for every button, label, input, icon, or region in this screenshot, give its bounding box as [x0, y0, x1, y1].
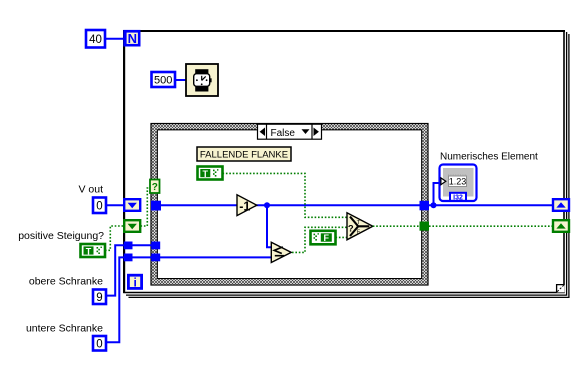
- boolean constant T (positive Steigung?): [81, 244, 106, 257]
- svg-text:N: N: [128, 31, 137, 46]
- svg-text:FALLENDE FLANKE: FALLENDE FLANKE: [200, 150, 288, 161]
- case tunnel right (green): [420, 222, 430, 231]
- dotted wire F to select f-input: [336, 236, 348, 238]
- svg-text:T: T: [86, 246, 92, 256]
- svg-text:Numerisches Element: Numerisches Element: [440, 152, 538, 163]
- svg-text:positive Steigung?: positive Steigung?: [18, 230, 104, 242]
- svg-text:obere Schranke: obere Schranke: [29, 276, 103, 288]
- wire junction down to less-equal: [267, 208, 271, 247]
- label FALLENDE FLANKE: [197, 147, 291, 161]
- right shift register (blue): [553, 199, 569, 211]
- wire 40 to N: [105, 38, 124, 40]
- svg-text:i: i: [134, 276, 137, 290]
- left shift register (blue): [124, 199, 140, 211]
- wire 500 to wait: [175, 79, 186, 81]
- dotted wire T to green shift register: [105, 226, 124, 250]
- wire case to right shift register (blue): [429, 204, 553, 206]
- svg-text:?: ?: [348, 224, 354, 235]
- boolean constant T (in case): [198, 167, 223, 180]
- svg-text:T: T: [203, 169, 209, 179]
- right shift register (green): [553, 220, 569, 232]
- case tunnel left lower (0): [151, 254, 160, 262]
- wire tunnels to case (upper): [133, 244, 153, 246]
- svg-text:9: 9: [96, 292, 102, 304]
- svg-text:-1: -1: [239, 199, 250, 213]
- svg-text:?: ?: [152, 182, 158, 193]
- for loop border: [123, 30, 569, 297]
- select function: [347, 213, 373, 240]
- svg-text:0: 0: [96, 339, 102, 351]
- case tunnel left upper (9): [151, 242, 160, 250]
- svg-text:False: False: [271, 128, 296, 139]
- case selector label "False": [258, 124, 322, 139]
- negate -1 function: [237, 195, 257, 216]
- case selector terminal ?: [150, 180, 160, 194]
- N terminal: [123, 30, 140, 47]
- svg-text:I32: I32: [453, 194, 463, 201]
- dotted wire less-equal to select s-input: [292, 227, 347, 252]
- case tunnel left (V out): [151, 201, 161, 211]
- svg-text:untere Schranke: untere Schranke: [26, 323, 103, 335]
- main blue wire inside case: [160, 204, 237, 206]
- wire tunnels to case and inside to less-equal (lower): [133, 256, 272, 258]
- for loop grow corner (dog-ear): [557, 285, 565, 293]
- wire up to numeric indicator: [434, 183, 440, 203]
- numeric constant 0 (untere): [93, 336, 106, 351]
- dotted wire green SR to case selector: [141, 188, 152, 226]
- dotted wire select to case tunnel: [373, 225, 420, 227]
- boolean constant F (in case): [311, 231, 336, 245]
- numeric constant 0 (V out): [93, 198, 106, 214]
- dotted wire T to select t-input: [223, 173, 348, 217]
- numeric constant 9: [93, 290, 106, 305]
- case tunnel right (blue): [420, 201, 430, 211]
- svg-text:V out: V out: [78, 184, 103, 196]
- Wait (ms) function icon: [186, 64, 218, 96]
- loop tunnel upper (9): [124, 242, 133, 250]
- wire 0 to lower tunnel: [106, 257, 124, 342]
- junction dot to indicator: [431, 202, 437, 208]
- svg-text:500: 500: [154, 75, 172, 87]
- left shift register (green): [124, 220, 140, 232]
- numeric constant 40: [86, 30, 105, 48]
- less or equal function: [271, 242, 291, 262]
- svg-text:F: F: [324, 233, 330, 243]
- svg-text:40: 40: [89, 34, 102, 46]
- svg-text:0: 0: [96, 201, 102, 213]
- wire junction after -1: [264, 202, 270, 208]
- loop tunnel lower (0): [124, 254, 133, 262]
- svg-text:1.23: 1.23: [449, 177, 467, 187]
- wire 9 to upper tunnel: [106, 245, 124, 295]
- case structure border: [151, 124, 428, 286]
- numeric indicator icon: [440, 165, 477, 202]
- numeric constant 500: [152, 72, 176, 87]
- wire V out to shift register: [106, 204, 124, 206]
- dotted wire case to right shift register (green): [429, 225, 553, 227]
- iteration terminal i: [127, 274, 143, 290]
